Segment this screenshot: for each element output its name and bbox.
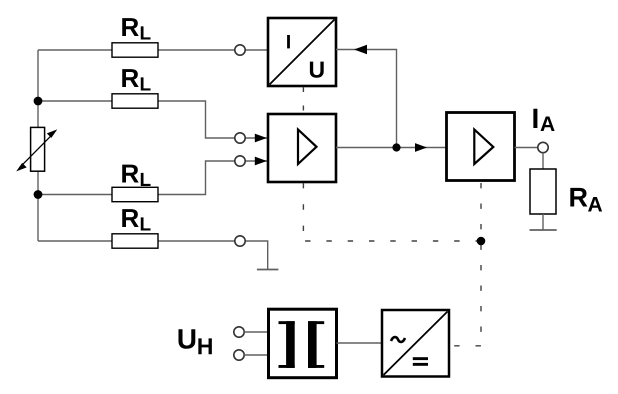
label UH bbox=[178, 329, 211, 354]
terminal circle UH bottom bbox=[234, 350, 244, 360]
label RL3 bbox=[122, 165, 150, 186]
ground terminal bar RA bbox=[530, 229, 557, 231]
arrowhead on feedback wire (pointing left) bbox=[354, 45, 367, 55]
dashed control line U3 down to converter bbox=[480, 183, 482, 346]
wire: IA terminal down to RA bbox=[542, 153, 544, 169]
variable resistor (sensor) R bbox=[16, 127, 57, 171]
wire: U2 output to U3 bbox=[336, 147, 446, 149]
node: junction top of sensor bbox=[34, 97, 43, 106]
terminal circle UH top bbox=[234, 327, 244, 337]
node: output junction bbox=[392, 143, 400, 151]
op-amp U3 (output amplifier) bbox=[447, 113, 515, 181]
wire: row 3 line to amp input 2 bbox=[38, 161, 268, 195]
wire: feedback from output node to U1 bbox=[336, 50, 397, 148]
terminal circle row 4 bbox=[235, 236, 245, 246]
arrowhead into amp input 2 bbox=[255, 157, 267, 166]
converter U4 AC/DC box bbox=[382, 310, 449, 377]
arrowhead on output wire (pointing right) bbox=[415, 143, 427, 152]
terminal circle IA bbox=[538, 142, 548, 152]
transformer T1 bbox=[269, 309, 337, 378]
terminal circle amp input 1 bbox=[235, 133, 245, 143]
wire: transformer to converter U4 bbox=[337, 342, 383, 344]
resistor RL3 bbox=[112, 187, 158, 201]
terminal circle row 1 bbox=[235, 45, 245, 55]
wire: row 4 bottom line bbox=[38, 241, 268, 270]
dashed control line U2 down bbox=[302, 183, 304, 241]
dashed control line U1 to U2 bbox=[302, 87, 304, 112]
op-amp U2 (main amplifier) bbox=[268, 114, 336, 182]
label RL2 bbox=[122, 69, 150, 90]
wire: UH bottom terminal to transformer bbox=[244, 354, 268, 356]
wire: left vertical bus bbox=[37, 50, 39, 241]
ground terminal bar row 4 bbox=[257, 269, 279, 271]
label RA bbox=[570, 188, 602, 212]
resistor RA bbox=[530, 169, 556, 214]
dashed control line from converter U4 bbox=[453, 345, 481, 347]
wire: UH top terminal to transformer bbox=[244, 331, 268, 333]
converter U1 I/U box bbox=[268, 18, 336, 86]
wire: RA to ground bar bbox=[542, 214, 544, 230]
resistor RL4 bbox=[112, 234, 158, 248]
resistor RL2 bbox=[112, 94, 158, 108]
wire: row 2 line to amp input 1 bbox=[38, 101, 268, 138]
node: dashed junction bbox=[477, 237, 486, 246]
label RL1 bbox=[122, 18, 150, 39]
wire: row 1 top line bbox=[38, 49, 268, 51]
resistor RL1 bbox=[112, 43, 158, 57]
arrowhead into amp input 1 bbox=[255, 134, 267, 143]
terminal circle amp input 2 bbox=[235, 156, 245, 166]
wire: U3 output to terminal IA bbox=[515, 147, 539, 149]
label RL4 bbox=[122, 209, 150, 230]
dashed control line horizontal to node bbox=[305, 240, 481, 242]
node: junction bottom of sensor bbox=[34, 190, 43, 199]
label IA bbox=[533, 109, 554, 131]
